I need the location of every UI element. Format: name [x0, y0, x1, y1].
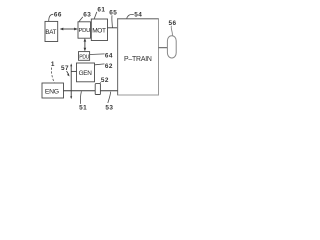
- leader line to wire 65: [111, 15, 114, 27]
- label 57 with arrow: [61, 65, 70, 76]
- shaft wire ENG to gear 52: [64, 90, 96, 92]
- wire shaft 57 to GEN: [71, 70, 76, 72]
- leader line to MOT: [94, 12, 97, 19]
- leader line to PDU 64: [90, 53, 105, 56]
- svg-text:57: 57: [61, 65, 69, 72]
- leader line to shaft 53: [108, 92, 111, 103]
- svg-text:64: 64: [105, 52, 113, 59]
- svg-text:65: 65: [109, 10, 117, 17]
- wire MOT to P-TRAIN: [108, 27, 118, 29]
- inverter box PDU 64: [79, 52, 90, 61]
- wire arrow PDU 63 to PDU 64 (double-headed): [84, 38, 87, 51]
- leader line to wheel: [171, 26, 172, 36]
- svg-text:PDU: PDU: [79, 54, 89, 60]
- svg-text:62: 62: [105, 63, 113, 70]
- shaft wire gear 52 to P-TRAIN: [100, 90, 117, 92]
- inverter box PDU 63: [78, 22, 91, 38]
- svg-text:52: 52: [101, 77, 109, 84]
- svg-text:ENG: ENG: [45, 88, 59, 95]
- dashed leader line to ENG: [51, 68, 54, 83]
- svg-text:51: 51: [79, 105, 87, 112]
- leader line to GEN: [95, 63, 105, 66]
- svg-text:63: 63: [83, 12, 91, 19]
- powertrain box P-TRAIN 54: [118, 19, 159, 95]
- battery box BAT: [45, 21, 58, 41]
- leader line to P-TRAIN: [127, 14, 134, 18]
- svg-text:GEN: GEN: [79, 70, 93, 77]
- svg-text:61: 61: [97, 7, 105, 14]
- engine box ENG 1: [42, 83, 64, 98]
- svg-text:53: 53: [105, 105, 113, 112]
- leader line to gear 52: [100, 82, 101, 83]
- leader line to BAT: [49, 14, 54, 21]
- gear box 52: [95, 84, 100, 95]
- shaft 57 vertical (double-headed): [70, 63, 72, 99]
- wheel 56: [167, 36, 176, 58]
- generator box GEN 62: [77, 63, 95, 82]
- wire arrow BAT to PDU 63 (double-headed): [60, 28, 78, 31]
- svg-text:1: 1: [51, 61, 55, 68]
- motor box MOT 61: [91, 19, 107, 41]
- leader line to PDU 63: [79, 17, 83, 22]
- axle wire P-TRAIN to wheel: [159, 47, 168, 49]
- svg-text:PDU: PDU: [79, 28, 91, 34]
- svg-text:54: 54: [134, 12, 142, 19]
- svg-text:BAT: BAT: [45, 29, 56, 36]
- svg-text:P–TRAIN: P–TRAIN: [124, 56, 152, 63]
- svg-text:56: 56: [169, 20, 177, 27]
- svg-text:66: 66: [54, 11, 62, 18]
- leader line to shaft 51: [79, 91, 82, 104]
- svg-text:MOT: MOT: [92, 28, 106, 35]
